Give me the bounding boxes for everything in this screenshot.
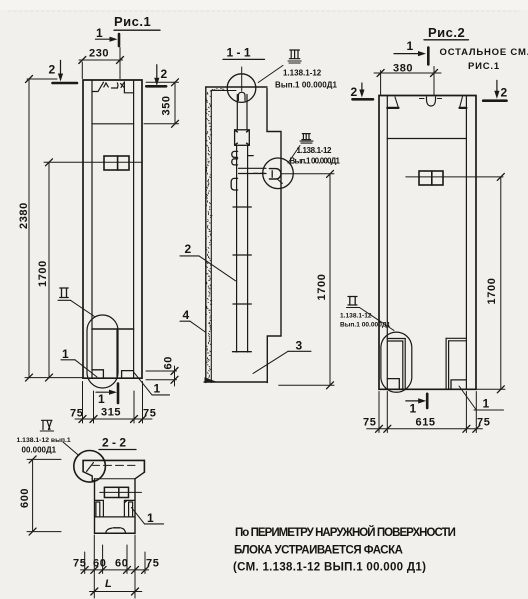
left figure: bottom left notch: [92, 370, 103, 378]
2-2: level line through plate: [100, 491, 142, 493]
anchor loop end inside circle: [269, 169, 282, 184]
section mark 2 (top right of left figure): [146, 65, 167, 87]
callout II (right figure): [340, 297, 394, 331]
svg-text:315: 315: [101, 407, 121, 419]
svg-text:1 - 1: 1 - 1: [227, 46, 251, 60]
rod lower shaft / ladder: [237, 146, 248, 352]
callout IV: [17, 420, 79, 455]
2-2: drainage dome: [106, 528, 126, 534]
2-2: left notch with angle: [95, 500, 104, 517]
dimension 2380 (far left): [18, 76, 57, 382]
svg-text:L: L: [105, 578, 112, 590]
wall speckle hatching: [206, 89, 224, 382]
callout III upper: [258, 50, 337, 90]
left figure: bottom recess top line: [92, 328, 134, 330]
left figure: top dash mark: [112, 87, 117, 89]
svg-text:Рис.1: Рис.1: [114, 14, 151, 29]
label II (left figure): [58, 288, 95, 317]
leader 1 (2-2 right notch): [131, 507, 163, 525]
dimension 1700 (middle figure): [279, 170, 334, 388]
right figure: inner line below top: [387, 138, 466, 140]
2-2: stem bottom band line: [95, 516, 136, 518]
2-2: bottom edge: [95, 532, 136, 534]
left figure: embedded plate: [104, 156, 129, 170]
label 2: [180, 242, 236, 281]
right profile with steps: [267, 89, 281, 383]
right figure: outer outline: [379, 96, 476, 390]
right figure: inner flange lines: [387, 96, 466, 390]
svg-text:00.000Д1: 00.000Д1: [22, 446, 57, 455]
level line through plate (1700 top extension): [44, 161, 142, 163]
hook clips on rod: [232, 151, 238, 157]
section mark 1 (top, above right figure): [394, 39, 428, 64]
left figure: bottom middle vertical: [116, 329, 118, 378]
right figure: left bottom bar: [387, 339, 405, 389]
left figure: top right notch: [124, 82, 133, 93]
section mark 1 (top, above left figure): [96, 26, 120, 46]
bottom dimensions 75 315 75 of left figure: [70, 382, 156, 424]
sleeve coupler: [235, 130, 250, 146]
section mark 1 (below left figure): [96, 384, 118, 407]
svg-text:Вып.1 00.000Д1: Вып.1 00.000Д1: [340, 322, 391, 329]
rod upper shaft: [237, 95, 247, 130]
label 3: [253, 339, 311, 374]
svg-text:1: 1: [62, 347, 69, 361]
bottom dimensions 75 615 75 of right figure: [363, 392, 490, 433]
callout III lower: [288, 134, 341, 166]
top edge of section: [206, 86, 267, 88]
svg-text:230: 230: [89, 48, 109, 60]
dimension 600 (left of 2-2): [19, 456, 61, 535]
svg-text:1700: 1700: [486, 278, 498, 305]
left figure: outer outline: [83, 80, 142, 378]
svg-text:Рис.2: Рис.2: [428, 25, 465, 40]
svg-text:1: 1: [147, 511, 154, 525]
svg-text:РИС.1: РИС.1: [468, 61, 500, 72]
detail circle III (top): [227, 74, 256, 103]
svg-text:1.138.1-12: 1.138.1-12: [283, 69, 322, 78]
svg-text:60: 60: [115, 558, 128, 570]
svg-text:1: 1: [410, 402, 417, 416]
2-2: flange outline: [83, 460, 144, 481]
svg-text:1700: 1700: [316, 274, 328, 301]
svg-text:2380: 2380: [18, 202, 30, 229]
svg-text:1: 1: [154, 382, 161, 396]
detail circle IV: [74, 451, 106, 483]
right figure: left trapezoid recess: [387, 97, 398, 108]
right figure: loop mark at top centre: [420, 97, 442, 106]
title 2-2: [99, 436, 136, 450]
title Fig.1: [114, 14, 160, 30]
svg-text:2: 2: [49, 63, 56, 77]
svg-text:75: 75: [363, 417, 376, 429]
svg-text:615: 615: [416, 417, 436, 429]
ladder rungs: [233, 207, 252, 352]
short tick right of rod: [248, 155, 254, 157]
leader 1 (right notch of left figure): [134, 373, 170, 396]
svg-text:60: 60: [163, 356, 175, 369]
svg-text:1: 1: [483, 397, 490, 411]
2-2: flange bottom line: [95, 478, 136, 480]
svg-text:600: 600: [19, 488, 31, 508]
svg-text:4: 4: [183, 308, 190, 322]
wall (hatched strip): [206, 87, 212, 383]
svg-text:2: 2: [501, 86, 508, 100]
dimension 230 (top of left figure): [79, 48, 124, 79]
left figure: top peak mark: [104, 83, 109, 87]
2-2: embedded plate: [104, 487, 128, 497]
2-2: stem sides: [95, 479, 136, 534]
svg-text:ОСТАЛЬНОЕ СМ.: ОСТАЛЬНОЕ СМ.: [440, 47, 528, 58]
tick on 1700 top extension: [46, 159, 53, 166]
dimension 60 (right of left figure bottom): [146, 356, 178, 386]
dimension 380 (top of right figure): [374, 63, 441, 95]
title 1-1: [223, 46, 265, 60]
title Fig.2: [424, 25, 528, 72]
svg-text:1.138.1-12: 1.138.1-12: [297, 146, 333, 155]
svg-text:1: 1: [98, 392, 105, 406]
svg-text:2 - 2: 2 - 2: [102, 436, 126, 450]
leader 1 (left notch): [61, 347, 97, 377]
left figure: top chamfer left: [92, 82, 104, 91]
svg-text:2: 2: [161, 67, 168, 81]
dimension L: [90, 578, 142, 595]
dimension 1700 (left of left figure): [37, 162, 53, 381]
left figure: top hook mark: [116, 83, 119, 88]
label 4: [180, 308, 206, 333]
note text: [233, 526, 457, 574]
detail capsule II on right figure: [381, 332, 412, 392]
svg-text:2: 2: [185, 242, 192, 256]
section mark 1 (below right figure): [406, 394, 427, 416]
dimension 1700 (right figure): [476, 173, 505, 392]
dashed centre line: [254, 172, 265, 174]
2-2: dashed line in flange: [93, 464, 136, 466]
level line through plate: [406, 176, 503, 178]
right figure: embedded plate: [419, 171, 443, 185]
right figure: right trapezoid recess: [460, 97, 467, 108]
dimension 350 (right of left figure top): [144, 79, 179, 128]
svg-text:1.138.1-12: 1.138.1-12: [340, 313, 372, 320]
left figure: line at 350 level: [92, 123, 134, 125]
svg-text:Вып.1 00.000Д1: Вып.1 00.000Д1: [290, 157, 341, 166]
section mark 2 (top left of left figure): [49, 60, 78, 83]
right figure: right bottom bar: [446, 338, 466, 389]
left figure bottom extension to the left: [25, 377, 83, 379]
anchor rod centre line: [241, 67, 243, 91]
section mark 2 (top right of right figure): [483, 80, 507, 100]
bottom edge of section: [204, 381, 267, 383]
detail circle III (lower): [263, 158, 294, 189]
svg-text:Вып.1 00.000Д1: Вып.1 00.000Д1: [275, 81, 338, 90]
svg-text:1: 1: [407, 39, 414, 53]
inner top line: [211, 90, 236, 92]
svg-text:По ПЕРИМЕТРУ НАРУЖНОЙ ПОВЕРХНО: По ПЕРИМЕТРУ НАРУЖНОЙ ПОВЕРХНОСТИ: [235, 526, 457, 539]
svg-text:75: 75: [143, 408, 156, 420]
svg-text:3: 3: [296, 339, 303, 353]
left figure: top cross mark: [121, 83, 124, 88]
svg-text:2: 2: [351, 85, 358, 99]
leader 1 (bottom right of right figure): [459, 386, 504, 411]
anchor band to detail circle: [239, 168, 267, 173]
bottom corner blob: [205, 377, 217, 382]
2-2: right notch with angle: [124, 500, 135, 517]
detail capsule II on left figure: [87, 315, 118, 388]
left figure: inner flange lines: [92, 80, 134, 378]
left figure: bottom right notch: [122, 371, 134, 378]
svg-text:1700: 1700: [37, 260, 49, 287]
svg-text:350: 350: [161, 95, 173, 115]
svg-text:БЛОКА УСТРАИВАЕТСЯ ФАСКА: БЛОКА УСТРАИВАЕТСЯ ФАСКА: [234, 545, 404, 557]
svg-text:(СМ. 1.138.1-12 ВЫП.1 00.000: (СМ. 1.138.1-12 ВЫП.1 00.000 Д1): [233, 562, 427, 574]
svg-text:1: 1: [96, 26, 103, 40]
svg-text:75: 75: [70, 408, 83, 420]
lifting loop at rod top: [238, 92, 245, 100]
svg-text:1.138.1-12 вып.1: 1.138.1-12 вып.1: [17, 437, 71, 444]
2-2 bottom dimensions 75 60 60 75: [73, 535, 159, 598]
section mark 2 (top left of right figure): [351, 83, 374, 99]
